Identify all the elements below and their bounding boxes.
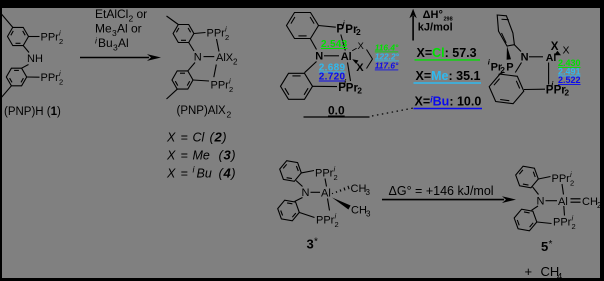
- svg-text:PPr: PPr: [41, 32, 60, 44]
- central complex top P to Al bond: [341, 35, 346, 51]
- svg-text:2: 2: [357, 85, 362, 95]
- structure 3 CH3 bottom label: [351, 205, 371, 219]
- structure 3 top P to Al bond: [325, 179, 327, 187]
- structure 5 Al=CH2 double bond: [571, 199, 581, 202]
- central complex N-Al bond: [324, 55, 339, 57]
- structure 2 top ring to N bond: [189, 43, 194, 52]
- structure 1 N to bottom ring bond: [22, 65, 29, 69]
- central complex top ring to P bond: [319, 26, 336, 28]
- structure 3 Al to bottom P bond: [328, 199, 330, 211]
- structure 2 bottom aryl ring: [172, 71, 193, 89]
- structure 5 bottom PPri2 label: [553, 214, 576, 232]
- svg-text:Me: Me: [95, 22, 112, 36]
- structure 3 top PPri2 label: [315, 165, 338, 183]
- svg-text:or: or: [137, 7, 148, 21]
- central complex N label: [315, 50, 323, 62]
- structure 3 N-Al bond: [311, 191, 321, 193]
- structure 5 top ring to P bond: [538, 177, 550, 180]
- central complex X top label: [358, 41, 365, 52]
- svg-text:*: *: [314, 237, 318, 248]
- svg-text:2: 2: [59, 37, 63, 46]
- central complex Al-X bottom wedge: [352, 59, 358, 64]
- structure 5 top P to Al bond: [562, 184, 564, 195]
- energy level 0.0 label: [328, 104, 345, 118]
- reagent text Me3Al or: [95, 22, 142, 39]
- svg-text:X: X: [563, 45, 570, 57]
- structure 3 bottom aryl ring: [278, 200, 300, 221]
- right complex distance 2.522: [558, 75, 581, 85]
- caption X = iBu (4): [166, 165, 236, 181]
- structure 5 bottom ring to P bond: [537, 222, 552, 224]
- right complex bottom ring to Pleft bond: [499, 72, 505, 75]
- svg-text:X: X: [166, 131, 176, 145]
- svg-text:2: 2: [570, 179, 574, 188]
- svg-text:Bu: Bu: [98, 36, 113, 50]
- structure 2 caption (PNP)AlX2: [177, 105, 232, 120]
- svg-text:X=iBu: 10.0: X=iBu: 10.0: [415, 95, 482, 109]
- svg-text:EtAlCl: EtAlCl: [95, 7, 128, 21]
- central complex Al to bottom P bond: [348, 63, 351, 82]
- central complex angle 122.2: [375, 52, 400, 62]
- structure 1 bottom aryl ring: [6, 68, 26, 86]
- central complex bottom aryl ring: [281, 73, 313, 99]
- svg-text:N: N: [521, 52, 529, 64]
- svg-text:Me: Me: [193, 149, 210, 163]
- caption X = Cl (2): [166, 130, 227, 145]
- svg-text:ΔG° = +146 kJ/mol: ΔG° = +146 kJ/mol: [389, 184, 494, 198]
- structure 1 bottom ring to P bond: [27, 76, 40, 78]
- right complex X2 label: [563, 45, 570, 57]
- structure 2 bottom ring to P bond: [193, 80, 209, 81]
- central complex top aryl ring: [287, 13, 319, 39]
- svg-text:X: X: [356, 62, 364, 74]
- structure 2 Al to bottom P bond: [214, 65, 217, 78]
- svg-text:2: 2: [334, 173, 338, 182]
- structure 2 N to bottom ring bond: [188, 63, 195, 71]
- right complex distance 2.430: [558, 58, 581, 68]
- svg-text:N: N: [315, 50, 323, 62]
- svg-text:4: 4: [557, 271, 562, 281]
- energy axis label kJ/mol: [418, 21, 453, 33]
- svg-text:2: 2: [59, 78, 63, 87]
- svg-text:2.543: 2.543: [321, 39, 348, 50]
- right complex N-Al bond: [529, 56, 543, 58]
- svg-text:Bu: Bu: [197, 167, 212, 181]
- structure 1 bottom methyl bond: [1, 86, 12, 99]
- structure 2 bottom PPri2 label: [211, 77, 234, 95]
- structure 3 bottom PPri2 label: [316, 212, 339, 230]
- svg-text:5: 5: [541, 239, 548, 254]
- svg-text:3: 3: [307, 237, 314, 252]
- right complex iPr2P label: [488, 57, 514, 75]
- structure 5 Al label: [558, 196, 568, 208]
- svg-text:2: 2: [564, 87, 569, 97]
- svg-text:(PNP)AlX: (PNP)AlX: [177, 105, 227, 117]
- frame left bar: [0, 0, 2, 281]
- svg-text:(2): (2): [210, 130, 228, 145]
- svg-text:=: =: [181, 149, 188, 163]
- structure 2 top ring to P bond: [194, 33, 206, 34]
- svg-text:2: 2: [597, 201, 602, 210]
- right complex wedge ring to P-left: [507, 46, 511, 60]
- central complex bottom ring to P bond: [313, 85, 338, 87]
- right complex Al-X wedge up: [554, 51, 561, 55]
- structure 1 top aryl ring: [8, 27, 29, 45]
- svg-text:ΔH°: ΔH°: [423, 9, 443, 21]
- svg-text:3: 3: [366, 188, 371, 197]
- right complex N to bottom ring bond: [515, 63, 521, 73]
- svg-text:2: 2: [335, 220, 339, 229]
- structure 5 N label: [537, 196, 545, 208]
- svg-text:X: X: [166, 149, 176, 163]
- structure 1 top ring to N bond: [23, 46, 29, 53]
- level X=Cl 57.3: [415, 46, 481, 60]
- right complex top ring to N bond: [514, 45, 521, 52]
- energy axis arrow: [409, 9, 416, 41]
- central complex bottom PiPr2 label: [338, 77, 362, 95]
- svg-text:Cl: Cl: [193, 131, 206, 145]
- structure 3 bold wedge to CH3: [332, 198, 351, 210]
- structure 3 hashed wedge to CH3: [332, 186, 349, 194]
- bottom reaction arrow: [382, 196, 516, 203]
- svg-text:2: 2: [225, 33, 229, 42]
- svg-text:PPr: PPr: [316, 215, 335, 227]
- structure 1 NH label: [27, 53, 43, 65]
- central complex distance 2.720: [319, 72, 346, 83]
- svg-text:PPr: PPr: [211, 80, 230, 92]
- level X=iBu 10.0: [414, 95, 483, 109]
- energy level 0.0 line: [304, 116, 370, 118]
- right complex top aryl ring (edge-on): [497, 15, 514, 46]
- structure 5 N to bottom ring bond: [532, 206, 539, 210]
- central complex angle bracket: [367, 50, 373, 69]
- structure 5 Al to bottom P bond: [563, 206, 566, 216]
- svg-text:=: =: [181, 131, 188, 145]
- central complex N to bottom ring bond: [305, 62, 317, 73]
- structure 5 bottom aryl ring: [514, 209, 537, 231]
- structure 5 N-Al bond: [546, 200, 558, 202]
- structure 1 caption (PNP)H (1): [4, 106, 61, 118]
- right complex distance 2.491: [558, 67, 581, 77]
- frame right bar: [600, 0, 604, 281]
- central complex Al-X top bond: [352, 48, 356, 51]
- svg-text:PPr: PPr: [553, 217, 572, 229]
- svg-text:X: X: [166, 167, 176, 181]
- svg-text:PPr: PPr: [41, 72, 60, 84]
- svg-text:Al: Al: [558, 196, 568, 208]
- structure 1 top methyl bond: [1, 14, 13, 28]
- right complex Al to bottom P bond: [548, 63, 550, 85]
- svg-text:=: =: [181, 167, 188, 181]
- svg-text:X=Me: 35.1: X=Me: 35.1: [416, 69, 481, 83]
- svg-text:2: 2: [572, 222, 576, 231]
- svg-text:2.522: 2.522: [558, 75, 581, 85]
- central complex top ring to N bond: [311, 39, 317, 50]
- svg-text:PPr: PPr: [552, 173, 571, 185]
- svg-text:Al: Al: [546, 52, 557, 64]
- svg-text:Al or: Al or: [117, 22, 142, 36]
- svg-text:(4): (4): [219, 166, 237, 181]
- structure 5 caption 5*: [541, 239, 553, 254]
- structure 2 AlX2 label: [216, 52, 238, 67]
- svg-text:2: 2: [233, 58, 238, 67]
- svg-text:0.0: 0.0: [328, 104, 345, 118]
- svg-text:2: 2: [229, 85, 233, 94]
- svg-text:+: +: [525, 264, 533, 279]
- svg-text:NH: NH: [27, 53, 43, 65]
- dotted correlation line: [372, 108, 416, 117]
- structure 3 top ring to P bond: [301, 171, 314, 173]
- svg-text:*: *: [549, 239, 553, 250]
- byproduct + CH4: [525, 264, 563, 281]
- svg-text:2.720: 2.720: [319, 72, 346, 83]
- structure 3 top ring to N bond: [296, 181, 303, 187]
- reagent text EtAlCl2 or: [95, 7, 147, 24]
- svg-text:Al: Al: [118, 36, 129, 50]
- reagent text iBu3Al: [95, 36, 129, 53]
- left reaction arrow: [80, 54, 161, 61]
- svg-text:X=Cl: 57.3: X=Cl: 57.3: [417, 46, 477, 60]
- structure 5 top aryl ring: [516, 166, 539, 188]
- svg-text:X: X: [358, 41, 365, 52]
- caption X = Me (3): [166, 148, 236, 163]
- structure 3 N label: [302, 187, 310, 199]
- right complex Al label: [546, 52, 557, 64]
- right complex bottom PiPr2 label: [546, 80, 570, 98]
- central complex distance 2.689: [319, 63, 346, 74]
- structure 2 N-Al bond: [204, 56, 215, 58]
- svg-text:3: 3: [366, 210, 371, 219]
- svg-text:AlX: AlX: [216, 52, 234, 64]
- structure 5 CH2 label: [582, 196, 602, 210]
- structure 2 top methyl bond: [167, 16, 179, 25]
- structure 3 bottom ring to P bond: [300, 213, 315, 218]
- central complex Al label: [341, 51, 352, 63]
- central complex angle 116.4: [375, 43, 399, 53]
- structure 3 N to bottom ring bond: [295, 198, 303, 202]
- structure 2 bottom methyl bond: [167, 89, 178, 99]
- svg-text:PPr: PPr: [207, 28, 226, 40]
- svg-text:2: 2: [356, 27, 361, 37]
- svg-text:CH: CH: [351, 205, 367, 217]
- right complex bottom ring to P bond: [524, 88, 545, 90]
- structure 3 CH3 top label: [351, 183, 371, 197]
- central complex angle 117.6: [375, 61, 399, 71]
- svg-text:Al: Al: [321, 188, 331, 200]
- central complex top PiPr2 label: [336, 19, 361, 37]
- dG label: [389, 184, 494, 198]
- svg-text:CH: CH: [582, 196, 598, 208]
- level X=Me 35.1: [414, 69, 482, 83]
- svg-text:X: X: [551, 41, 559, 53]
- central complex distance 2.543: [321, 39, 348, 50]
- structure 5 top ring to N bond: [533, 187, 539, 195]
- svg-text:(PNP)H (1): (PNP)H (1): [4, 106, 61, 118]
- right complex N label: [521, 52, 529, 64]
- svg-text:kJ/mol: kJ/mol: [418, 21, 453, 33]
- structure 1 top ring to P bond: [29, 36, 40, 38]
- right complex bottom aryl ring: [489, 74, 524, 104]
- frame bottom bar: [0, 278, 604, 281]
- structure 2 N label: [194, 52, 202, 64]
- structure 2 top PPri2 label: [207, 25, 230, 43]
- structure 1 top PPri2 label: [41, 29, 64, 47]
- structure 2 top aryl ring: [173, 25, 194, 43]
- energy axis label dH298: [423, 9, 453, 23]
- svg-text:CH: CH: [351, 183, 367, 195]
- right complex X top label: [551, 41, 559, 53]
- central complex X bottom label: [356, 62, 364, 74]
- svg-text:N: N: [194, 52, 202, 64]
- svg-text:PPr: PPr: [315, 168, 334, 180]
- structure 5 top PPri2 label: [552, 170, 575, 188]
- structure 2 top P to Al bond: [217, 39, 220, 52]
- svg-text:N: N: [302, 187, 310, 199]
- svg-text:2: 2: [227, 110, 232, 120]
- structure 3 Al label: [321, 188, 331, 200]
- structure 1 bottom PPri2 label: [41, 69, 64, 87]
- svg-text:Al: Al: [341, 51, 352, 63]
- svg-text:(3): (3): [219, 148, 237, 163]
- frame top bar: [0, 0, 604, 8]
- structure 3 caption 3*: [307, 237, 319, 252]
- structure 3 top aryl ring: [280, 161, 302, 182]
- svg-text:117.6°: 117.6°: [375, 61, 399, 71]
- svg-text:P: P: [506, 62, 513, 74]
